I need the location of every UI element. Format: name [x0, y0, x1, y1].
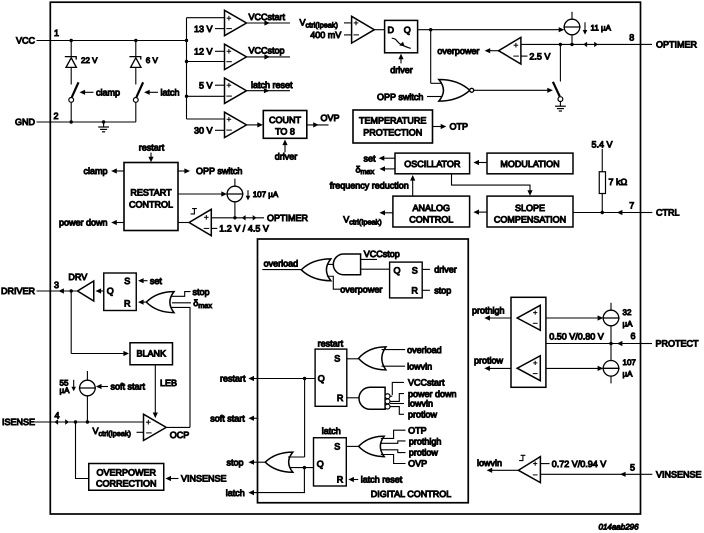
svg-text:set: set: [150, 276, 163, 286]
svg-text:6: 6: [630, 331, 635, 341]
svg-text:OCP: OCP: [170, 430, 190, 440]
svg-text:restart: restart: [220, 374, 246, 384]
svg-text:OVP: OVP: [408, 459, 427, 469]
svg-text:protlow: protlow: [409, 448, 439, 458]
svg-text:lowvin: lowvin: [477, 458, 502, 468]
svg-text:OPP switch: OPP switch: [377, 92, 423, 102]
svg-text:power down: power down: [59, 218, 108, 228]
svg-text:Q: Q: [317, 459, 324, 469]
svg-text:µA: µA: [623, 369, 634, 378]
svg-text:overload: overload: [264, 259, 299, 269]
svg-text:Q: Q: [394, 266, 401, 276]
svg-text:32: 32: [623, 308, 632, 317]
svg-text:latch: latch: [161, 88, 180, 98]
svg-text:OPTIMER: OPTIMER: [267, 213, 309, 223]
svg-text:2.5 V: 2.5 V: [529, 51, 550, 61]
svg-text:soft start: soft start: [111, 382, 146, 392]
svg-text:5: 5: [630, 463, 635, 473]
svg-text:COMPENSATION: COMPENSATION: [494, 214, 566, 224]
svg-text:8: 8: [629, 33, 634, 43]
svg-text:12 V: 12 V: [194, 47, 213, 57]
svg-text:4: 4: [55, 411, 60, 421]
svg-text:driver: driver: [275, 151, 298, 161]
svg-text:ISENSE: ISENSE: [2, 417, 35, 427]
svg-text:7: 7: [629, 201, 634, 211]
svg-text:R: R: [337, 393, 344, 403]
svg-text:13 V: 13 V: [194, 24, 213, 34]
svg-text:COUNT: COUNT: [269, 115, 301, 125]
svg-text:CORRECTION: CORRECTION: [96, 479, 157, 489]
svg-text:CTRL: CTRL: [656, 208, 680, 218]
svg-text:SLOPE: SLOPE: [515, 203, 545, 213]
svg-text:R: R: [337, 475, 344, 485]
svg-text:latch reset: latch reset: [361, 475, 403, 485]
svg-text:overload: overload: [407, 345, 442, 355]
svg-text:OPTIMER: OPTIMER: [656, 40, 698, 50]
svg-text:S: S: [412, 266, 418, 276]
svg-text:latch: latch: [322, 426, 341, 436]
svg-text:TO 8: TO 8: [275, 126, 295, 136]
svg-text:VINSENSE: VINSENSE: [656, 470, 702, 480]
svg-text:PROTECT: PROTECT: [656, 339, 700, 349]
svg-text:OVP: OVP: [321, 113, 340, 123]
svg-text:107: 107: [623, 358, 637, 367]
svg-text:VCCstart: VCCstart: [408, 378, 445, 388]
svg-text:LEB: LEB: [160, 378, 177, 388]
svg-text:DIGITAL CONTROL: DIGITAL CONTROL: [371, 489, 452, 499]
svg-text:11 µA: 11 µA: [591, 23, 612, 32]
svg-text:prothigh: prothigh: [472, 306, 505, 316]
svg-text:0.72 V/0.94 V: 0.72 V/0.94 V: [552, 459, 607, 469]
svg-text:prothigh: prothigh: [409, 436, 442, 446]
svg-text:1: 1: [54, 28, 59, 38]
svg-text:latch: latch: [226, 488, 245, 498]
svg-text:S: S: [334, 441, 340, 451]
svg-text:latch reset: latch reset: [251, 80, 293, 90]
svg-text:restart: restart: [318, 338, 344, 348]
svg-text:stop: stop: [226, 457, 243, 467]
svg-text:MODULATION: MODULATION: [500, 159, 559, 169]
svg-text:R: R: [411, 286, 418, 296]
svg-text:power down: power down: [408, 389, 457, 399]
svg-text:clamp: clamp: [83, 166, 107, 176]
svg-text:driver: driver: [390, 65, 413, 75]
svg-text:OSCILLATOR: OSCILLATOR: [404, 159, 461, 169]
svg-text:S: S: [124, 276, 130, 286]
svg-text:014aab296: 014aab296: [599, 523, 640, 532]
svg-text:driver: driver: [434, 265, 457, 275]
svg-text:S: S: [334, 353, 340, 363]
svg-text:BLANK: BLANK: [136, 349, 166, 359]
svg-text:protlow: protlow: [474, 356, 504, 366]
svg-text:stop: stop: [434, 286, 451, 296]
svg-text:3: 3: [54, 280, 59, 290]
svg-text:clamp: clamp: [96, 88, 120, 98]
svg-text:ANALOG: ANALOG: [413, 203, 451, 213]
svg-text:22 V: 22 V: [81, 56, 98, 65]
svg-text:DRV: DRV: [68, 272, 87, 282]
svg-text:soft start: soft start: [210, 413, 245, 423]
svg-text:5.4 V: 5.4 V: [591, 139, 612, 149]
svg-text:OTP: OTP: [408, 425, 427, 435]
svg-text:lowvin: lowvin: [408, 399, 433, 409]
svg-text:CONTROL: CONTROL: [409, 214, 453, 224]
svg-text:TEMPERATURE: TEMPERATURE: [359, 115, 426, 125]
svg-text:protlow: protlow: [408, 410, 438, 420]
svg-text:400 mV: 400 mV: [310, 30, 341, 40]
svg-text:stop: stop: [193, 287, 210, 297]
svg-text:6 V: 6 V: [146, 56, 159, 65]
svg-text:CONTROL: CONTROL: [129, 199, 173, 209]
svg-text:30 V: 30 V: [194, 126, 213, 136]
svg-text:µA: µA: [623, 319, 634, 328]
svg-text:overpower: overpower: [340, 284, 382, 294]
svg-text:Q: Q: [318, 374, 325, 384]
svg-text:restart: restart: [139, 142, 165, 152]
svg-text:R: R: [124, 298, 131, 308]
svg-text:VCC: VCC: [16, 36, 36, 46]
svg-text:Q: Q: [404, 25, 411, 35]
svg-text:2: 2: [54, 111, 59, 121]
svg-text:DRIVER: DRIVER: [1, 286, 36, 296]
svg-text:0.50 V/0.80 V: 0.50 V/0.80 V: [549, 331, 604, 341]
svg-text:7 kΩ: 7 kΩ: [609, 177, 628, 187]
svg-text:overpower: overpower: [437, 46, 479, 56]
svg-text:set: set: [363, 153, 376, 163]
svg-text:VCCstop: VCCstop: [364, 249, 400, 259]
svg-text:VINSENSE: VINSENSE: [181, 474, 227, 484]
svg-text:GND: GND: [15, 117, 36, 127]
svg-text:5 V: 5 V: [199, 80, 213, 90]
svg-text:107 µA: 107 µA: [253, 190, 279, 199]
svg-text:1.2 V / 4.5 V: 1.2 V / 4.5 V: [219, 224, 269, 234]
svg-text:PROTECTION: PROTECTION: [363, 127, 422, 137]
svg-text:VCCstart: VCCstart: [249, 12, 286, 22]
svg-text:OVERPOWER: OVERPOWER: [96, 468, 156, 478]
svg-text:Q: Q: [107, 286, 114, 296]
svg-text:D: D: [388, 25, 395, 35]
svg-text:RESTART: RESTART: [130, 187, 172, 197]
svg-text:lowvin: lowvin: [407, 361, 432, 371]
svg-text:OPP switch: OPP switch: [196, 166, 242, 176]
svg-text:µA: µA: [60, 386, 71, 395]
svg-text:frequency reduction: frequency reduction: [330, 180, 409, 190]
svg-text:VCCstop: VCCstop: [249, 45, 285, 55]
svg-text:OTP: OTP: [450, 122, 469, 132]
